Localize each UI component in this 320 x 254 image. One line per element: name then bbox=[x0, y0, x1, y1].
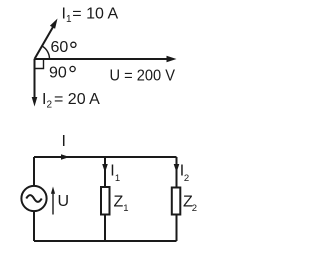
source U1 circle bbox=[21, 186, 46, 211]
svg-text:2: 2 bbox=[192, 203, 197, 214]
wire source to bottom bbox=[33, 211, 35, 241]
svg-text:Z: Z bbox=[114, 194, 124, 211]
phasor U axis bbox=[35, 56, 177, 63]
svg-text:U: U bbox=[58, 193, 70, 210]
impedance Z2 branch wire top bbox=[176, 157, 178, 187]
impedance Z2 box bbox=[172, 188, 181, 215]
svg-text:I: I bbox=[62, 133, 66, 150]
svg-text:2: 2 bbox=[47, 100, 53, 111]
impedance Z1 box bbox=[101, 187, 110, 215]
impedance Z2 branch wire bottom bbox=[176, 216, 178, 242]
svg-text:= 20 A: = 20 A bbox=[54, 91, 100, 108]
impedance Z1 branch wire bottom bbox=[104, 215, 106, 241]
right-angle square bbox=[35, 59, 44, 69]
wire bottom bbox=[34, 240, 177, 242]
voltage arrow U at source bbox=[51, 187, 55, 215]
phasor I1 (60 deg) bbox=[35, 19, 58, 60]
svg-text:1: 1 bbox=[123, 203, 128, 214]
svg-text:= 10 A: = 10 A bbox=[72, 6, 118, 23]
60 deg arc bbox=[42, 46, 50, 59]
wire left down to source bbox=[33, 157, 35, 186]
svg-text:60: 60 bbox=[51, 39, 69, 56]
svg-text:1: 1 bbox=[66, 14, 72, 25]
phasor I2 (down) bbox=[32, 59, 38, 107]
wire top bbox=[34, 156, 177, 158]
current arrow I on top wire bbox=[61, 154, 70, 160]
source sine symbol bbox=[26, 195, 41, 202]
svg-text:U = 200 V: U = 200 V bbox=[110, 68, 176, 85]
svg-text:2: 2 bbox=[184, 173, 189, 184]
impedance Z1 branch wire top bbox=[104, 157, 106, 187]
current arrow I2 on Z2 branch bbox=[174, 164, 180, 173]
svg-text:90: 90 bbox=[49, 65, 67, 82]
current arrow I1 on Z1 branch bbox=[102, 164, 108, 173]
svg-text:1: 1 bbox=[115, 173, 120, 184]
